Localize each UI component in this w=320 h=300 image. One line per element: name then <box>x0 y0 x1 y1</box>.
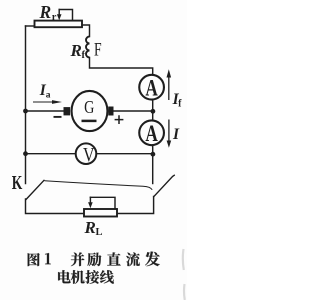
svg-text:R: R <box>70 41 82 60</box>
svg-text:A: A <box>145 76 158 101</box>
svg-text:a: a <box>46 91 51 101</box>
svg-text:L: L <box>96 227 103 238</box>
svg-text:V: V <box>83 143 95 165</box>
svg-text:R: R <box>84 218 96 237</box>
svg-text:f: f <box>82 50 86 61</box>
svg-text:I: I <box>172 126 180 143</box>
svg-text:G: G <box>84 96 94 117</box>
svg-text:A: A <box>145 122 158 147</box>
svg-text:F: F <box>94 38 102 60</box>
svg-text:K: K <box>12 171 23 193</box>
svg-text:R: R <box>39 2 52 22</box>
svg-text:r: r <box>52 12 57 23</box>
